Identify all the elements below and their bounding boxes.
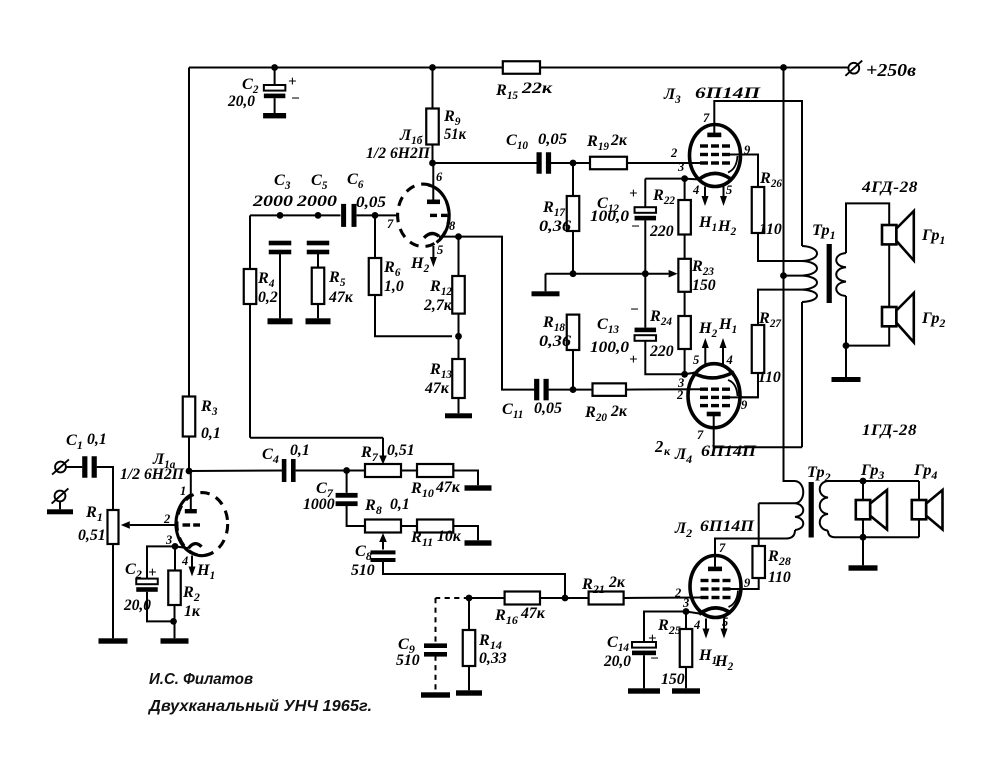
svg-text:5: 5 [437, 243, 443, 257]
resistor R24 220 [684, 292, 686, 316]
node C4/C7/R7 [343, 467, 350, 474]
V3 cathode arc (top) [693, 372, 734, 378]
node C12/C13 on divider wire [642, 270, 649, 277]
node R17/R18 divider [570, 270, 577, 277]
capacitor C12 100,0 electrolytic [644, 179, 646, 208]
V2 heater arrows pins 4 5, H1 H2 [704, 187, 706, 197]
node V1a cathode junction [172, 543, 179, 550]
R1 wiper arrow to V1a grid [130, 524, 160, 526]
top supply rail +250V [189, 67, 503, 69]
capacitor C1 0,1 [82, 456, 87, 478]
node V4 cathode junction [683, 608, 690, 615]
speaker Gr3 [862, 481, 864, 500]
svg-text:150: 150 [661, 671, 685, 688]
node R18 on C11 wire [570, 386, 577, 393]
svg-text:+: + [629, 352, 638, 368]
node V3 cathode junction [681, 371, 688, 378]
svg-text:3: 3 [165, 533, 172, 547]
svg-text:1ГД-28: 1ГД-28 [862, 421, 917, 439]
feedback wire to R7 wiper [250, 437, 383, 439]
+250V vertical feed line [780, 64, 787, 71]
V1a anode plate pin1 [190, 471, 192, 510]
svg-text:3: 3 [677, 160, 684, 174]
svg-text:5: 5 [693, 353, 699, 367]
svg-text:7: 7 [387, 217, 394, 231]
resistor R11 10k [401, 525, 417, 527]
svg-text:0,1: 0,1 [290, 442, 310, 459]
wire Gr1 to Gr2 (series) [888, 244, 890, 307]
svg-text:47к: 47к [424, 380, 450, 397]
speaker Gr4 [918, 481, 920, 500]
svg-text:51к: 51к [444, 126, 467, 143]
svg-text:2000: 2000 [296, 193, 337, 210]
triode V1b envelope (dashed half-tube) [398, 184, 449, 246]
svg-text:0,1: 0,1 [201, 425, 221, 442]
resistor R6 1,0 [374, 215, 376, 258]
signal wire V1a anode to C4 [189, 470, 282, 473]
svg-text:9: 9 [741, 398, 748, 412]
svg-text:2к: 2к [608, 574, 626, 591]
svg-text:И.С. Филатов: И.С. Филатов [149, 671, 253, 688]
resistor R12 2,7k [458, 237, 460, 276]
transformer Tr1 core [827, 244, 832, 303]
capacitor C2 20,0 (top, electrolytic to ground) [274, 68, 276, 86]
ground stub of divider [546, 273, 574, 275]
potentiometer R8 0,1 [365, 520, 401, 533]
resistor R4 0,2 (feedback) [249, 215, 251, 269]
resistor R18 0,36 [567, 315, 580, 350]
svg-text:0,51: 0,51 [78, 527, 106, 544]
V2 cathode arc [698, 173, 730, 180]
svg-text:+: + [288, 74, 297, 90]
svg-text:2000: 2000 [252, 193, 293, 210]
svg-text:к: к [664, 444, 671, 458]
R8 wiper arrow from C8 [382, 542, 384, 550]
V1b heater pin5 arrow H2 [432, 246, 434, 257]
V2 screen pin9 wire to R26 [728, 155, 758, 188]
svg-text:1/2 6Н2П: 1/2 6Н2П [120, 466, 185, 483]
resistor R20 2k [593, 383, 627, 396]
node Tr1 primary center tap +250V [780, 272, 787, 279]
capacitor C10 0,05 [537, 152, 542, 174]
V1b cathode pin8 [424, 233, 439, 237]
svg-text:4: 4 [181, 554, 188, 568]
svg-text:2: 2 [654, 437, 663, 456]
svg-text:220: 220 [649, 223, 674, 240]
capacitor C6 0,05 [341, 204, 346, 227]
potentiometer R1 0,51 [108, 510, 119, 544]
node: R9 / tube V1b anode / C10 wire [429, 160, 436, 167]
svg-text:10к: 10к [437, 528, 462, 545]
node C5 on grid wire [315, 212, 322, 219]
V1a heater pin4 arrow H1 [191, 556, 193, 567]
V3 grid rows [700, 388, 708, 391]
node R12/R13/R6 [455, 333, 462, 340]
V1a grid dashes pin2 [183, 523, 191, 526]
V3 anode pin7 lead to Tr1 bottom [714, 416, 802, 447]
svg-text:6П14П: 6П14П [700, 518, 755, 535]
svg-text:3: 3 [677, 376, 684, 390]
transformer Tr2 primary winding [795, 481, 803, 530]
capacitor C5 2000 [307, 241, 330, 246]
svg-text:6П14П: 6П14П [701, 443, 757, 460]
V2 grid rows [700, 144, 708, 147]
svg-text:4ГД-28: 4ГД-28 [861, 178, 918, 196]
svg-text:150: 150 [692, 277, 716, 294]
svg-text:5: 5 [722, 615, 728, 629]
svg-text:7: 7 [697, 428, 704, 442]
input terminal 2 grounded [55, 491, 66, 502]
svg-text:+250в: +250в [866, 60, 916, 80]
svg-text:110: 110 [759, 221, 782, 238]
svg-text:22к: 22к [521, 80, 554, 97]
V1b grid dashes pin7 [430, 214, 437, 217]
svg-text:9: 9 [744, 576, 751, 590]
svg-text:+: + [648, 631, 657, 647]
svg-text:2: 2 [163, 512, 170, 526]
svg-text:20,0: 20,0 [123, 597, 151, 614]
svg-text:4: 4 [692, 183, 699, 197]
resistor R2 1k [174, 546, 176, 570]
transformer Tr1 primary winding [802, 246, 817, 302]
speaker line top Tr2 [860, 478, 867, 485]
svg-text:2: 2 [670, 146, 677, 160]
transformer Tr2 core [809, 482, 814, 538]
node speaker ground Tr2 [860, 534, 867, 541]
svg-text:+: + [629, 186, 638, 202]
resistor R27 110 [758, 290, 802, 325]
resistor R3 0,1 [183, 397, 196, 437]
node R16/R14/C9 [466, 595, 473, 602]
svg-text:6: 6 [436, 170, 443, 184]
speaker Gr1 [882, 225, 896, 244]
node Tr1 secondary ground [843, 342, 850, 349]
svg-text:0,33: 0,33 [479, 650, 507, 667]
svg-text:−: − [631, 219, 640, 235]
svg-text:4: 4 [726, 353, 733, 367]
resistor R22 220 [684, 179, 686, 200]
svg-text:0,1: 0,1 [87, 431, 107, 448]
svg-text:8: 8 [449, 219, 456, 233]
svg-text:0,05: 0,05 [534, 400, 562, 417]
svg-text:110: 110 [768, 569, 791, 586]
resistor R26 110 [752, 187, 765, 233]
capacitor C8 510 [371, 550, 396, 554]
svg-text:20,0: 20,0 [227, 93, 255, 110]
resistor R9 51k [429, 64, 436, 71]
V4 screen pin9 [729, 588, 742, 590]
V4 grid rows [701, 579, 709, 582]
svg-text:4: 4 [693, 618, 700, 632]
svg-text:7: 7 [719, 541, 726, 555]
capacitor C4 0,1 [282, 459, 287, 482]
potentiometer R23 150 [678, 259, 691, 292]
left supply branch wire [188, 68, 190, 397]
V4 heater arrows pins 4 5, H1 H2 [705, 619, 707, 629]
V2 anode pin7 lead to Tr1 [714, 101, 802, 246]
capacitor C7 1000 [346, 471, 348, 493]
svg-text:510: 510 [351, 562, 375, 579]
wire divider to R23 wiper arrow [573, 273, 645, 275]
resistor R17 0,36 [572, 163, 574, 196]
V4 cathode arc [699, 608, 731, 614]
svg-text:0,1: 0,1 [390, 496, 410, 513]
V1b anode plate pin6 [432, 163, 434, 200]
pentode V4 envelope [690, 556, 741, 618]
svg-text:1/2 6Н2П: 1/2 6Н2П [366, 145, 431, 162]
svg-text:2,7к: 2,7к [423, 297, 453, 314]
tap R28 110 to Tr2 [759, 502, 795, 504]
V3 screen pin9 wire to R27 [728, 396, 759, 398]
svg-text:100,0: 100,0 [590, 339, 629, 356]
svg-text:0,2: 0,2 [258, 289, 278, 306]
resistor R10 47k [401, 470, 417, 472]
svg-text:2к: 2к [610, 403, 628, 420]
svg-text:220: 220 [649, 343, 674, 360]
node: R3 / V1a anode / C4 [186, 468, 193, 475]
node R21/R16/C8 [562, 595, 569, 602]
svg-text:2: 2 [676, 388, 683, 402]
svg-text:+: + [148, 565, 157, 581]
capacitor C14 20,0 electrolytic [644, 612, 686, 643]
transformer Tr2 secondary winding [820, 481, 828, 531]
svg-text:7: 7 [703, 111, 710, 125]
svg-text:47к: 47к [435, 479, 461, 496]
svg-text:1,0: 1,0 [384, 278, 404, 295]
V1a cathode pin3 [189, 544, 202, 549]
transformer Tr1 secondary winding [836, 253, 846, 296]
svg-text:47к: 47к [328, 289, 354, 306]
resistor R14 0,33 [468, 598, 470, 630]
V3 heater arrows pins 5 4, H2 H1 [704, 348, 706, 364]
node C6 out / R6 top [372, 212, 379, 219]
svg-text:Двухканальный УНЧ 1965г.: Двухканальный УНЧ 1965г. [147, 698, 372, 715]
wire cathode V1b to C11 [459, 237, 535, 390]
resistor R21 2k grid stopper [589, 592, 624, 605]
capacitor C3 2000 [269, 241, 292, 246]
svg-text:110: 110 [758, 369, 781, 386]
resistor R16 47k [505, 592, 540, 605]
svg-text:−: − [650, 651, 659, 667]
svg-text:510: 510 [396, 652, 420, 669]
resistor R13 47k [458, 336, 460, 359]
svg-text:1000: 1000 [303, 496, 335, 513]
resistor R5 47k [312, 268, 325, 304]
svg-text:0,05: 0,05 [538, 131, 567, 148]
node V1b cathode junction [455, 233, 462, 240]
potentiometer R7 0,51 [365, 464, 401, 477]
speaker Gr2 [882, 307, 896, 326]
svg-text:5: 5 [726, 183, 732, 197]
svg-text:100,0: 100,0 [590, 208, 629, 225]
svg-text:0,36: 0,36 [539, 218, 571, 235]
svg-text:47к: 47к [520, 605, 546, 622]
pentode V2 envelope [690, 125, 741, 187]
svg-text:2к: 2к [610, 132, 628, 149]
wire V2 cathode node [645, 178, 684, 180]
capacitor C9 510 (dashed option) [436, 597, 470, 599]
svg-text:9: 9 [744, 143, 751, 157]
svg-text:0,36: 0,36 [539, 333, 571, 350]
svg-text:−: − [630, 302, 639, 318]
capacitor C11 0,05 [534, 379, 539, 401]
svg-text:1к: 1к [184, 603, 201, 620]
node C10/R19/R17 [570, 160, 577, 167]
svg-text:−: − [291, 91, 300, 107]
svg-text:20,0: 20,0 [603, 653, 631, 670]
terminal +250V [848, 63, 859, 74]
triode V1a envelope (dashed half-tube) [177, 493, 228, 556]
V4 anode pin7 lead [714, 539, 716, 567]
node C3 on grid wire [277, 212, 284, 219]
grid wire of V1b from C3/C5 via C6 [250, 214, 341, 216]
wire R19 to V2 grid pin2 [627, 162, 700, 164]
R7 wiper arrow (from feedback) [382, 438, 384, 456]
svg-text:6П14П: 6П14П [695, 85, 761, 102]
capacitor C13 100,0 electrolytic [644, 274, 646, 328]
input terminal 1 [55, 462, 66, 473]
svg-text:0,05: 0,05 [356, 194, 386, 211]
resistor R15 22k in rail [503, 61, 540, 74]
resistor R19 2k [590, 157, 627, 170]
svg-text:0,51: 0,51 [387, 442, 415, 459]
svg-text:1: 1 [180, 484, 186, 498]
capacitor C2 20,0 (cathode bypass) [147, 546, 175, 578]
resistor R25 150 [685, 612, 687, 630]
